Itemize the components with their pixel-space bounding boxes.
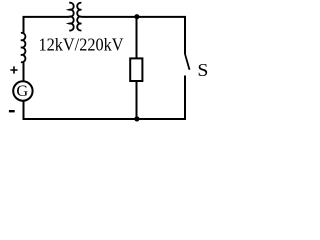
svg-text:G: G — [16, 83, 28, 100]
transformer T1 primary winding — [69, 3, 73, 31]
wire top-right horizontal — [81, 17, 185, 54]
wire top-left horizontal — [24, 17, 70, 33]
node junction bottom — [134, 116, 139, 121]
plus terminal — [10, 66, 17, 73]
resistor R1 (box) — [130, 58, 142, 81]
node junction top — [134, 14, 139, 19]
wire resistor top lead — [136, 17, 138, 59]
switch S blade — [185, 54, 190, 70]
wire generator bottom to bottom rail — [24, 76, 186, 120]
transformer T1 secondary winding — [77, 3, 81, 31]
svg-text:12kV/220kV: 12kV/220kV — [39, 35, 124, 55]
generator G — [13, 81, 32, 100]
wire left vertical to generator — [23, 62, 25, 81]
wire resistor bottom lead — [136, 81, 138, 119]
minus terminal — [9, 110, 15, 112]
inductor L1 on left branch — [21, 33, 26, 62]
svg-text:S: S — [197, 60, 208, 80]
